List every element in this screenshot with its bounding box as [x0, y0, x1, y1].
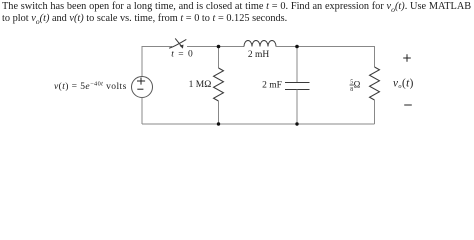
capacitor C1 2 mF — [285, 83, 310, 90]
wire: capacitor branch bottom — [296, 90, 298, 125]
svg-text:v(t) = 5e−40t volts: v(t) = 5e−40t volts — [54, 81, 127, 93]
resistor R1 1 Mohm — [214, 68, 224, 101]
output - terminal — [404, 104, 412, 106]
wire: inductor to top-right corner — [276, 46, 375, 48]
voltage source V1 — [132, 77, 153, 98]
problem text line 1 — [2, 1, 471, 14]
wire: left vertical above source — [141, 46, 143, 77]
switch arrowhead — [180, 45, 184, 49]
svg-text:1 MΩ: 1 MΩ — [189, 80, 212, 90]
wire: bottom horizontal — [142, 123, 375, 125]
wire: 1 Mohm branch top — [218, 47, 220, 69]
output + terminal — [403, 54, 411, 62]
wire: switch to inductor — [187, 46, 244, 48]
svg-text:2 mH: 2 mH — [248, 50, 270, 60]
node dot top at capacitor — [295, 45, 299, 49]
svg-text:2 mF: 2 mF — [262, 81, 282, 91]
switch S1 (closes at t=0) — [169, 38, 186, 48]
problem text line 2 — [2, 13, 287, 26]
label 5/8 ohm — [350, 80, 361, 93]
svg-text:t = 0: t = 0 — [171, 49, 194, 59]
resistor R2 5/8 ohm — [370, 67, 380, 100]
node dot bottom at capacitor — [295, 122, 298, 125]
wire: top-left horizontal from source branch to switch — [142, 46, 172, 48]
svg-text:Ω: Ω — [354, 80, 361, 90]
inductor L1 — [244, 41, 276, 47]
wire: capacitor branch top — [296, 47, 298, 83]
node dot bottom at 1 Mohm — [217, 122, 220, 125]
svg-text:vo(t): vo(t) — [393, 78, 414, 91]
wire: left vertical below source — [141, 98, 143, 125]
wire: 1 Mohm branch bottom — [218, 101, 220, 124]
wire: right vertical top — [374, 46, 376, 67]
node dot top at 1 Mohm — [217, 45, 221, 49]
wire: right vertical bottom — [374, 100, 376, 124]
